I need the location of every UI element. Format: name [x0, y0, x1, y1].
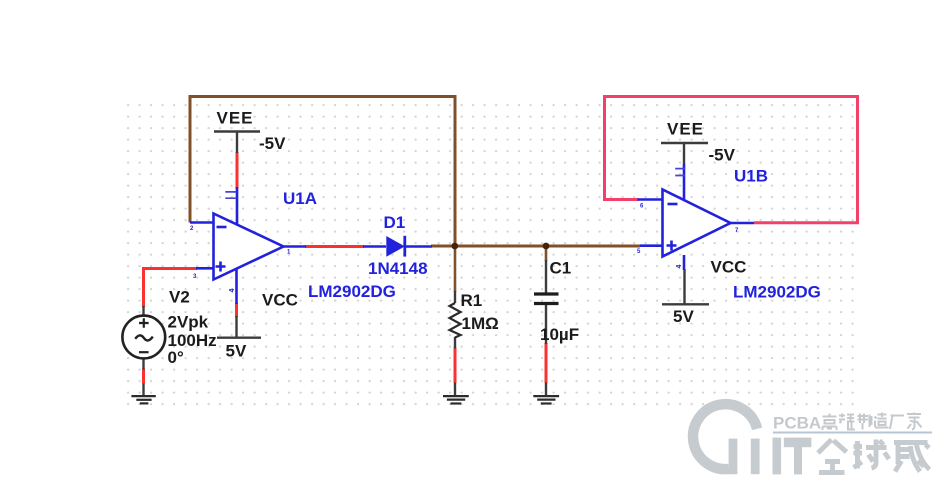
svg-text:2Vpk: 2Vpk: [168, 313, 209, 332]
svg-text:-5V: -5V: [259, 134, 286, 153]
svg-text:C1: C1: [550, 259, 572, 278]
svg-text:PCBA: PCBA: [773, 414, 821, 433]
svg-text:LM2902DG: LM2902DG: [308, 282, 396, 301]
svg-text:D1: D1: [384, 213, 406, 232]
svg-text:VEE: VEE: [667, 120, 704, 139]
svg-text:LM2902DG: LM2902DG: [733, 283, 821, 302]
svg-text:5V: 5V: [673, 307, 694, 326]
svg-text:R1: R1: [461, 291, 483, 310]
svg-text:U1A: U1A: [283, 189, 317, 208]
svg-text:0°: 0°: [168, 348, 184, 367]
svg-text:1MΩ: 1MΩ: [462, 314, 499, 333]
svg-text:-5V: -5V: [709, 146, 736, 165]
svg-text:4: 4: [676, 265, 683, 269]
svg-text:10µF: 10µF: [540, 325, 579, 344]
svg-text:1N4148: 1N4148: [368, 259, 428, 278]
svg-text:VEE: VEE: [217, 109, 254, 128]
svg-text:4: 4: [229, 289, 236, 293]
svg-text:VCC: VCC: [711, 258, 747, 277]
svg-text:VCC: VCC: [262, 291, 298, 310]
svg-text:V2: V2: [169, 288, 190, 307]
svg-text:5V: 5V: [226, 342, 247, 361]
svg-text:U1B: U1B: [734, 167, 768, 186]
